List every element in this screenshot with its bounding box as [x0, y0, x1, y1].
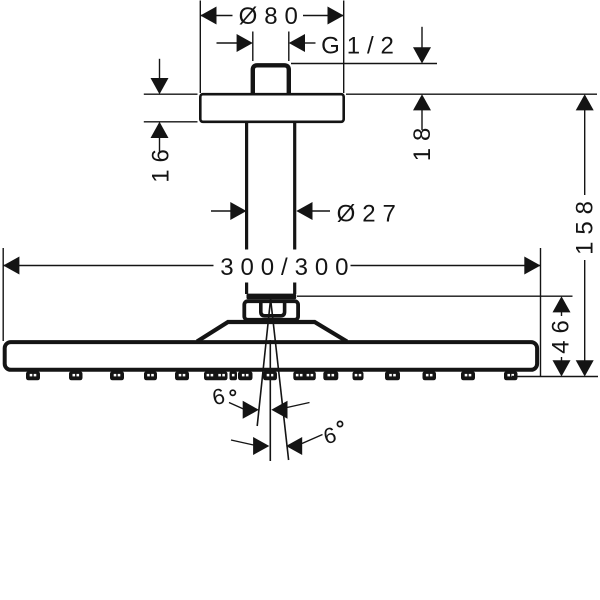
dim 158 arrows	[576, 94, 594, 376]
svg-text:6: 6	[210, 383, 227, 410]
dim G1/2 arrows	[237, 34, 305, 52]
inner ball cup	[261, 301, 285, 316]
dim G1/2 extension lines	[217, 32, 316, 62]
dim 300/300 arrows	[3, 257, 540, 275]
dim 18 arrows	[413, 47, 431, 110]
spray angle line right 6 deg	[271, 299, 289, 460]
angle dim 6 deg left leaders	[229, 403, 310, 410]
nozzle dots	[30, 374, 514, 377]
nozzle row	[26, 371, 518, 380]
svg-text:G1/2: G1/2	[321, 33, 401, 60]
svg-text:46: 46	[547, 313, 574, 354]
svg-text:300/300: 300/300	[220, 254, 355, 281]
ceiling flange plate	[200, 94, 343, 122]
dim 18 extension lines	[291, 27, 597, 130]
ball joint housing	[244, 301, 298, 320]
mounting cone	[197, 322, 347, 342]
angle dim 6 deg left arrows	[243, 401, 288, 419]
dim 46 lines	[297, 296, 573, 361]
svg-text:Ø27: Ø27	[337, 201, 403, 228]
G1/2 thread connector stub	[253, 65, 289, 95]
dim 16 extension lines	[144, 59, 198, 152]
svg-text:18: 18	[409, 121, 436, 162]
svg-text:6: 6	[321, 422, 339, 449]
dim 158 lines	[512, 110, 598, 377]
dim 16 arrows	[151, 78, 169, 138]
dim Ø27 leaders	[211, 210, 330, 212]
dim 300/300 text mask	[214, 250, 350, 283]
shower head plate	[5, 342, 537, 370]
dim 46 arrows	[553, 296, 571, 376]
angle dim 6 deg right leaders	[231, 435, 323, 446]
dim Ø80 extension lines	[200, 1, 343, 94]
connection nut (filled)	[247, 294, 297, 300]
svg-text:158: 158	[571, 194, 598, 255]
pipe Ø27 body	[247, 122, 295, 294]
spray angle line left 6 deg	[257, 299, 270, 426]
angle dim 6 deg right arrows	[253, 437, 302, 455]
dim 300/300 extension lines	[3, 248, 540, 377]
spray axis centerline	[269, 340, 271, 461]
dim Ø80 arrows	[200, 7, 343, 25]
dim Ø27 arrows	[230, 202, 312, 220]
svg-text:16: 16	[148, 142, 175, 183]
svg-text:Ø80: Ø80	[239, 3, 305, 30]
